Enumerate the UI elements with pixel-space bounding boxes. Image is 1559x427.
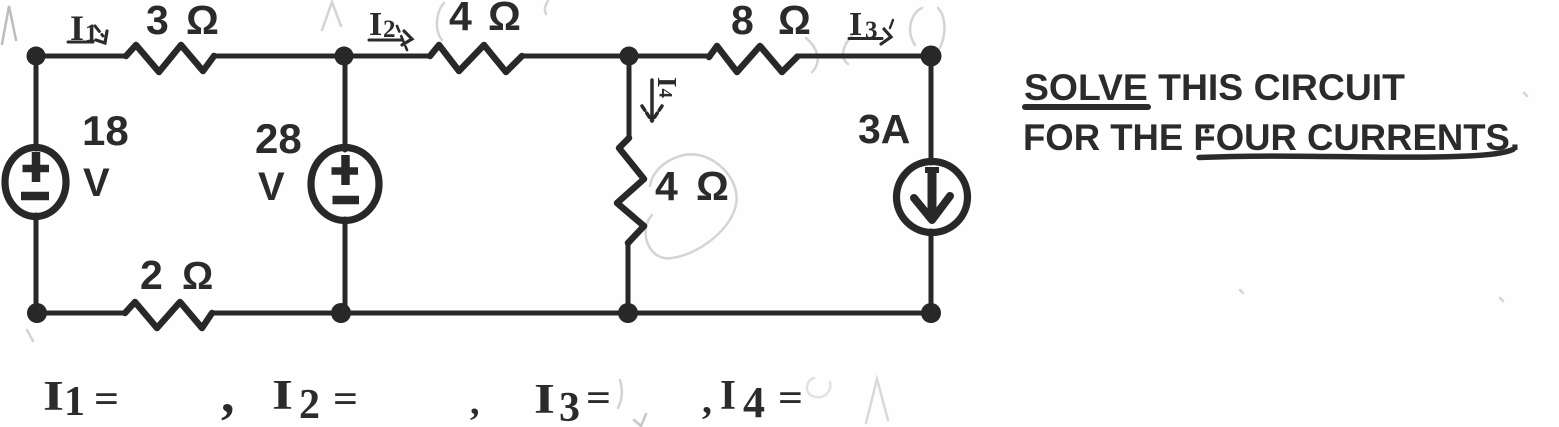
svg-text:4: 4 — [655, 163, 678, 209]
svg-text:18: 18 — [82, 107, 129, 154]
svg-text:Ω: Ω — [778, 0, 811, 43]
svg-text:,: , — [470, 381, 480, 423]
svg-text:,: , — [221, 364, 235, 424]
svg-text:=: = — [94, 376, 119, 421]
svg-text:I: I — [652, 77, 682, 88]
svg-text:4: 4 — [743, 378, 765, 427]
svg-text:,: , — [702, 377, 712, 422]
svg-text:Ω: Ω — [488, 0, 521, 39]
svg-text:SOLVE THIS CIRCUIT: SOLVE THIS CIRCUIT — [1024, 67, 1405, 108]
svg-text:V: V — [83, 161, 110, 205]
svg-text:3: 3 — [559, 385, 580, 427]
svg-text:I: I — [369, 6, 382, 43]
svg-text:I: I — [43, 374, 64, 420]
svg-text:=: = — [333, 376, 358, 421]
svg-text:8: 8 — [731, 0, 754, 43]
svg-text:V: V — [258, 165, 285, 209]
svg-text:3: 3 — [146, 0, 169, 43]
svg-text:28: 28 — [255, 115, 302, 162]
svg-text:=: = — [586, 375, 611, 420]
svg-text:1: 1 — [64, 379, 85, 425]
svg-text:3A: 3A — [858, 106, 910, 152]
svg-text:Ω: Ω — [186, 0, 219, 43]
svg-text:2: 2 — [140, 252, 163, 298]
svg-text:Ω: Ω — [182, 255, 213, 298]
svg-text:4: 4 — [655, 89, 676, 99]
svg-text:Ω: Ω — [696, 163, 729, 209]
svg-text:I: I — [272, 373, 293, 419]
svg-text:4: 4 — [449, 0, 472, 39]
svg-text:=: = — [778, 375, 803, 420]
svg-text:2: 2 — [299, 382, 320, 427]
svg-text:I: I — [720, 373, 736, 419]
svg-text:FOR THE FOUR CURRENTS.: FOR THE FOUR CURRENTS. — [1023, 117, 1520, 158]
svg-text:I: I — [534, 377, 555, 423]
